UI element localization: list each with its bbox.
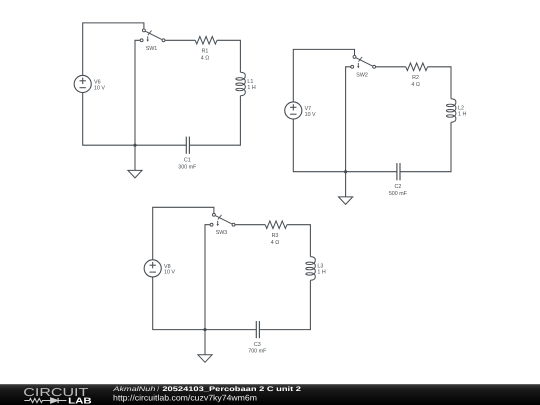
wire <box>376 66 406 68</box>
svg-text:10 V: 10 V <box>94 85 105 91</box>
svg-text:http://circuitlab.com/cuzv7ky7: http://circuitlab.com/cuzv7ky74wm6m <box>113 394 257 403</box>
svg-text:20524103_Percobaan 2 C unit 2: 20524103_Percobaan 2 C unit 2 <box>162 386 301 393</box>
resistor R1 <box>195 37 217 62</box>
wire <box>346 67 351 172</box>
switch SW3 <box>210 213 235 236</box>
svg-text:R3: R3 <box>272 233 279 239</box>
voltage source V7 <box>285 102 316 119</box>
svg-text:SW1: SW1 <box>146 46 158 52</box>
svg-text:C1: C1 <box>184 158 191 164</box>
inductor L3 <box>306 257 326 281</box>
capacitor C2 <box>389 163 408 197</box>
svg-text:4 Ω: 4 Ω <box>411 82 419 88</box>
ground <box>128 145 142 178</box>
node (wire junction) <box>133 144 136 147</box>
switch SW1 <box>140 29 165 52</box>
wire <box>153 207 214 259</box>
wire <box>259 280 310 329</box>
node (wire junction) <box>203 328 206 331</box>
wire <box>135 40 140 145</box>
svg-text:C2: C2 <box>394 184 401 190</box>
wire <box>165 39 195 41</box>
wire <box>189 96 240 145</box>
svg-text:700 mF: 700 mF <box>248 349 267 355</box>
wire <box>153 277 257 330</box>
svg-text:/: / <box>157 386 159 393</box>
svg-text:300 mF: 300 mF <box>178 164 197 170</box>
svg-text:R1: R1 <box>202 49 209 55</box>
svg-text:SW2: SW2 <box>356 72 368 78</box>
wire <box>83 23 144 76</box>
svg-text:C3: C3 <box>254 342 261 348</box>
svg-text:4 Ω: 4 Ω <box>271 240 279 246</box>
svg-text:LAB: LAB <box>68 395 92 405</box>
voltage source V6 <box>74 75 105 92</box>
ground <box>198 330 212 363</box>
capacitor C1 <box>178 137 197 171</box>
resistor R3 <box>265 221 287 246</box>
svg-text:R2: R2 <box>412 75 419 81</box>
svg-text:AkmalNuh: AkmalNuh <box>112 386 156 393</box>
wire <box>83 93 187 146</box>
wire <box>287 225 310 257</box>
switch SW2 <box>351 55 376 78</box>
svg-text:10 V: 10 V <box>305 112 316 118</box>
resistor R2 <box>406 63 428 88</box>
inductor L2 <box>446 99 466 123</box>
node (wire junction) <box>344 170 347 173</box>
footer bar <box>0 384 540 405</box>
svg-text:SW3: SW3 <box>216 230 228 236</box>
wire <box>400 122 451 171</box>
wire <box>293 119 397 172</box>
ground <box>339 172 353 205</box>
CircuitLab logo resistor-diode glyph <box>24 398 66 403</box>
inductor L1 <box>236 72 256 96</box>
wire <box>428 67 451 99</box>
wire <box>205 225 210 330</box>
svg-text:1 H: 1 H <box>317 270 325 276</box>
svg-text:4 Ω: 4 Ω <box>201 56 209 62</box>
svg-text:10 V: 10 V <box>164 270 175 276</box>
wire <box>217 40 240 72</box>
svg-text:500 mF: 500 mF <box>389 191 408 197</box>
capacitor C3 <box>248 321 267 355</box>
voltage source V8 <box>144 260 175 277</box>
wire <box>293 49 354 102</box>
svg-text:1 H: 1 H <box>247 85 255 91</box>
svg-text:1 H: 1 H <box>458 112 466 118</box>
wire <box>235 224 265 226</box>
